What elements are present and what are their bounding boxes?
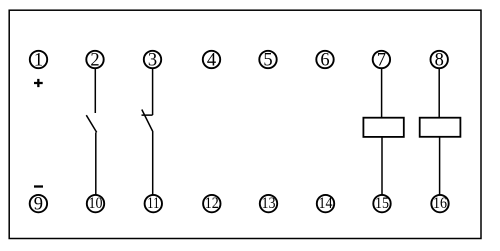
plus polarity mark — [34, 79, 43, 87]
terminal 8 — [431, 50, 448, 70]
svg-text:10: 10 — [89, 195, 103, 212]
wire from terminal 2 — [94, 68, 96, 113]
svg-text:12: 12 — [205, 195, 219, 212]
svg-text:4: 4 — [207, 50, 216, 70]
terminal 7 — [373, 50, 390, 70]
NC contact (terminals 3-11) — [142, 110, 154, 133]
wire to terminal 10 — [95, 132, 97, 194]
terminal 10 — [87, 195, 104, 212]
wire to terminal 16 — [439, 137, 441, 195]
svg-text:8: 8 — [435, 50, 444, 70]
wire from terminal 3 — [152, 68, 154, 115]
terminal 2 — [86, 50, 103, 70]
svg-text:6: 6 — [320, 50, 329, 70]
wire to terminal 11 — [152, 132, 154, 195]
svg-text:11: 11 — [147, 195, 159, 212]
wire from terminal 7 — [381, 68, 383, 117]
terminal 14 — [317, 195, 334, 212]
svg-text:9: 9 — [34, 194, 43, 214]
svg-text:15: 15 — [375, 195, 389, 212]
terminal 16 — [431, 195, 448, 212]
terminal 9 — [30, 194, 47, 214]
coil (terminals 8-16) — [420, 118, 461, 137]
svg-text:1: 1 — [34, 50, 43, 70]
terminal 4 — [203, 50, 220, 70]
svg-text:16: 16 — [433, 195, 447, 212]
terminal 12 — [203, 195, 220, 212]
terminal 15 — [373, 195, 390, 212]
terminal 3 — [144, 50, 161, 70]
svg-text:5: 5 — [263, 50, 272, 70]
svg-text:3: 3 — [148, 50, 157, 70]
coil (terminals 7-15) — [363, 118, 403, 137]
terminal 1 — [30, 50, 47, 70]
svg-text:13: 13 — [262, 195, 276, 212]
wire from terminal 8 — [438, 68, 440, 117]
terminal 11 — [145, 195, 162, 212]
terminal 6 — [316, 50, 333, 70]
svg-text:14: 14 — [319, 195, 333, 212]
svg-text:7: 7 — [377, 50, 386, 70]
NO contact (terminals 2-10) — [86, 115, 96, 132]
terminal 5 — [259, 50, 276, 70]
svg-text:2: 2 — [90, 50, 99, 70]
wire to terminal 15 — [381, 137, 383, 195]
minus polarity mark — [34, 185, 43, 187]
terminal 13 — [260, 195, 277, 212]
